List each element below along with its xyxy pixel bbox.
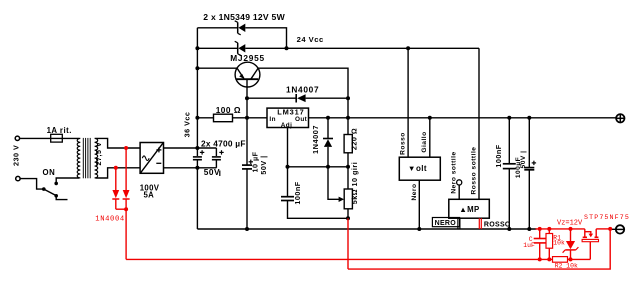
rotated labels [11, 112, 527, 205]
switch ON lever [44, 189, 56, 196]
label AMP [461, 208, 466, 212]
pot wiper wire [328, 167, 341, 200]
capacitor C4 100nF adj [287, 167, 289, 196]
ammeter box [449, 199, 490, 218]
svg-text:MP: MP [467, 205, 480, 214]
svg-text:1uF: 1uF [523, 242, 535, 249]
Out net wire [309, 117, 617, 119]
svg-text:Nero sottile: Nero sottile [450, 151, 457, 193]
svg-text:Rosso sottile: Rosso sottile [471, 147, 478, 195]
svg-text:Nero: Nero [411, 183, 418, 200]
minus rail down to ground bus [196, 168, 198, 229]
svg-text:Out: Out [295, 116, 308, 123]
capacitor C5 100nF out [508, 118, 510, 164]
svg-text:Giallo: Giallo [421, 131, 428, 152]
output terminal plus [616, 114, 624, 122]
svg-text:1N4004: 1N4004 [95, 215, 124, 223]
wire bridge + output [164, 147, 217, 149]
red modification circuit [112, 146, 612, 269]
wire bridge - output [164, 167, 217, 169]
wire bottom terminal to switch [20, 179, 42, 190]
junction Out/giallo [428, 116, 432, 120]
Q1 collector diagonal [251, 68, 258, 79]
junction Out/C5 [507, 116, 511, 120]
resistor R1 10k [548, 229, 550, 234]
junction red zener bottom [569, 257, 573, 261]
wire top terminal to fuse to transformer [20, 137, 79, 139]
diode D6 1N4004 [125, 148, 127, 190]
svg-text:100nF: 100nF [293, 181, 302, 204]
Q1 emitter diagonal with arrow [237, 68, 244, 78]
svg-text:Adj: Adj [281, 122, 293, 129]
transformer T1 secondary winding [95, 138, 98, 177]
junction red R1 bottom [547, 257, 551, 261]
junction bridge+/C1 [195, 146, 199, 150]
junction bus/nero [417, 227, 421, 231]
svg-text:50V |: 50V | [259, 155, 268, 174]
junction bus/C5 [507, 227, 511, 231]
voltmeter giallo wire [429, 118, 431, 157]
junction bridge-/C1 [195, 166, 199, 170]
zener D1 1N5349 [238, 24, 245, 32]
potentiometer P1 5k [344, 189, 352, 209]
resistor R2 220 ohm [347, 118, 349, 135]
zener branch 1 top wire [197, 27, 237, 29]
svg-text:10k: 10k [553, 240, 565, 247]
junction bus/C3 [245, 227, 249, 231]
switch pivot dot [42, 187, 46, 191]
red labels [95, 214, 630, 269]
bridge ac symbol [142, 156, 149, 161]
diode D5 1N4004 [115, 168, 117, 190]
capacitor C6 100uF out [528, 118, 530, 167]
ground bus [197, 228, 536, 230]
LM317 Adj lead [287, 128, 289, 167]
fuse F1 [51, 134, 63, 142]
wire switch upper contact to primary [56, 178, 79, 183]
capacitor C7 1uF [539, 229, 541, 238]
svg-text:2x 4700 µF: 2x 4700 µF [201, 138, 246, 148]
junction rail/emitter [195, 66, 199, 70]
junction red zener top [569, 227, 573, 231]
junction red R1 top [547, 227, 551, 231]
svg-text:36 Vcc: 36 Vcc [182, 112, 191, 138]
junction red C7 bottom [538, 257, 542, 261]
svg-text:In: In [269, 116, 276, 123]
svg-text:230 V: 230 V [11, 145, 20, 166]
zener D2 1N5349 [238, 44, 245, 52]
red dot junction sec bottom [114, 166, 118, 170]
wire joining diode bottoms [116, 208, 126, 210]
input terminal top [15, 136, 19, 140]
Adj net wire [288, 166, 349, 168]
bridge plus [156, 149, 161, 151]
NERO label box [432, 218, 459, 227]
diode D3 1N4007 horizontal [297, 94, 306, 102]
svg-text:1N4007: 1N4007 [311, 125, 320, 154]
regulator U1 LM317 box [267, 108, 309, 127]
svg-text:MJ2955: MJ2955 [230, 53, 265, 63]
junction In/base/C3 [245, 116, 249, 120]
zener DZ Vz12V [570, 229, 572, 241]
In net wire [197, 117, 213, 119]
svg-text:24 Vcc: 24 Vcc [297, 35, 324, 44]
red bottom wire 2 [348, 229, 610, 269]
svg-text:100nF: 100nF [494, 144, 503, 167]
svg-text:1N4007: 1N4007 [286, 85, 319, 95]
red wire mosfet drain to terminal [596, 228, 610, 230]
switch lower contact dot [54, 194, 58, 198]
resistor R2 10k box [553, 257, 568, 263]
svg-text:5kΩ 10 giri: 5kΩ 10 giri [350, 162, 359, 204]
bridge rectifier box [140, 143, 163, 174]
black labels [43, 12, 511, 228]
Q1 base lead [246, 79, 248, 118]
svg-text:ROSSO: ROSSO [484, 221, 511, 228]
label volt [409, 167, 414, 171]
svg-text:2 x 1N5349 12V 5W: 2 x 1N5349 12V 5W [203, 12, 285, 22]
svg-text:R2 10k: R2 10k [555, 262, 578, 269]
junction 24Vcc/voltmeter rosso [406, 46, 410, 50]
zener branch 2 wire / 24Vcc rail [197, 47, 237, 49]
resistor R 100 ohm [214, 114, 233, 122]
svg-text:100 Ω: 100 Ω [216, 105, 241, 115]
wire base node to 1N4007 [247, 97, 296, 99]
svg-text:27,5 V: 27,5 V [94, 142, 103, 166]
junction red C7 top [538, 227, 542, 231]
junction rail/24Vcc [195, 46, 199, 50]
svg-text:NERO: NERO [435, 220, 457, 227]
Q1 emitter wire [197, 67, 237, 69]
Q1 collector wire to right [258, 68, 348, 118]
switch upper contact dot [54, 182, 58, 186]
svg-text:olt: olt [416, 164, 427, 173]
junction Adj/C4 [286, 165, 290, 169]
red bottom wire 1 [126, 258, 590, 260]
wire secondary top to bridge [96, 138, 141, 148]
svg-text:50V: 50V [204, 167, 220, 177]
junction dots black [195, 46, 531, 231]
svg-text:Vz=12V: Vz=12V [557, 219, 583, 227]
capacitor C1 4700uF [196, 148, 198, 156]
transformer T1 primary winding [77, 138, 80, 177]
ammeter nero sottile open terminal [457, 180, 462, 185]
Q1 base bar [236, 78, 258, 80]
red dot junction sec top [124, 146, 128, 150]
junction Adj/D4/wiper [326, 165, 330, 169]
voltmeter box [399, 157, 440, 180]
junction base node [245, 96, 249, 100]
red wire down from diodes [125, 209, 127, 259]
transistor Q1 MJ2955 circle [235, 62, 260, 87]
wire secondary bottom to bridge [96, 168, 141, 178]
junction Out/R220 [346, 116, 350, 120]
svg-text:5A: 5A [144, 191, 155, 200]
junction pot bottom [346, 216, 350, 220]
ammeter rosso sottile wire [478, 48, 480, 199]
junction Out/C6 [527, 116, 531, 120]
svg-text:STP75NF75: STP75NF75 [584, 214, 630, 221]
capacitor C2 4700uF [215, 148, 217, 156]
voltmeter nero wire [418, 180, 420, 229]
input terminal bottom [16, 176, 20, 180]
main + rail vertical [196, 28, 198, 148]
mosfet Q2 STP75NF75 [584, 229, 586, 237]
junction Adj/R220/pot [346, 165, 350, 169]
svg-text:ON: ON [43, 168, 56, 177]
junction Out/D4 [326, 116, 330, 120]
diode D4 1N4007 vertical [327, 118, 329, 139]
junction zener branches [285, 46, 289, 50]
junction bus/C6 [527, 227, 531, 231]
svg-text:50V |: 50V | [520, 151, 527, 169]
junction collector/1N4007 [346, 96, 350, 100]
voltmeter rosso wire [407, 48, 409, 157]
bridge minus [156, 162, 161, 164]
red top wire left of mosfet [536, 228, 585, 230]
junction rail/In net [195, 116, 199, 120]
svg-text:Rosso: Rosso [399, 132, 406, 155]
capacitor C3 10uF [246, 118, 248, 165]
transformer core [82, 138, 84, 178]
output terminal minus [616, 225, 624, 233]
ammeter thick red lead [478, 218, 480, 229]
wire switch lower stub [56, 196, 67, 200]
ammeter thick black lead [457, 218, 459, 229]
svg-text:1A rit.: 1A rit. [47, 126, 72, 135]
stub dot to minus terminal [610, 228, 616, 230]
red wire pot bottom down [347, 218, 349, 269]
bridge diagonal [141, 143, 164, 173]
svg-text:220 Ω: 220 Ω [350, 128, 359, 150]
